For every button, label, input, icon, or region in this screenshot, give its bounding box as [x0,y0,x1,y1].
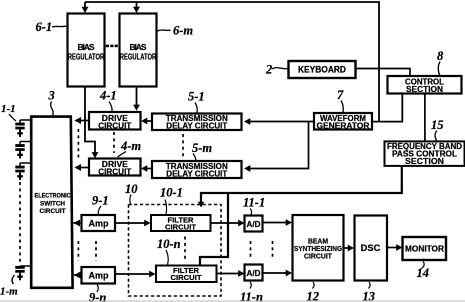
amp 9-n [82,267,116,284]
ellipsis dashes below filter 10-1 [184,237,186,261]
wire waveform generator to delay 5-1 [250,121,315,123]
waveform generator 7 [314,113,372,130]
A/D 11-1 [245,216,263,232]
label 4-1 [99,89,117,112]
label 11-1 [243,196,265,215]
label 1-1 [1,103,16,121]
label 3 [48,89,55,116]
svg-text:GENERATOR: GENERATOR [317,121,370,130]
transmission delay circuit 5-1 [152,114,242,131]
wire amp 9-1 to filter 10-1 [115,222,145,224]
svg-text:CIRCUIT: CIRCUIT [304,252,332,261]
label 15 [431,118,444,141]
label 14 [417,262,430,281]
ellipsis between bias regulators [106,45,118,48]
electronic switch to amp 9-1 wire [74,222,82,224]
electronic switch to amp 9-n wire [74,274,82,276]
svg-text:10-n: 10-n [157,237,181,251]
keyboard 2 [289,61,356,78]
ellipsis dashes between A/D output wires [272,241,274,260]
bias regulator 6-m [120,14,157,87]
wire frequency band branch to filter circuit 10-n [200,193,228,266]
label 10 [125,182,138,204]
transducer element 1-m [15,266,31,280]
svg-text:1-m: 1-m [0,286,18,298]
svg-text:REGULATOR: REGULATOR [120,52,157,62]
label 1-m [0,275,18,298]
svg-text:Amp: Amp [89,271,110,281]
svg-text:3: 3 [48,89,55,103]
amp 9-1 [82,215,116,231]
wire drive 4-1 to switch [81,120,90,122]
wire filter 10-n to A/D 11-n [217,273,239,275]
svg-text:8: 8 [437,49,444,63]
electronic switch circuit 3 [31,117,72,288]
svg-text:CIRCUIT: CIRCUIT [98,121,131,130]
scan artifact streak [0,300,465,302]
DSC 13 [355,216,388,281]
svg-text:KEYBOARD: KEYBOARD [298,65,346,75]
svg-text:CIRCUIT: CIRCUIT [40,208,66,215]
filter circuit 10-n [156,266,217,283]
label 6-1 [36,20,67,34]
beam synthesizing circuit 12 [293,215,344,281]
svg-text:6-1: 6-1 [36,20,53,34]
label 9-n [89,284,106,302]
ellipsis dashes between drive wires [77,129,79,158]
drive circuit 4-m [89,159,141,177]
filter circuit 10-1 [151,215,211,232]
svg-text:ELECTRONIC: ELECTRONIC [35,193,71,200]
svg-text:A/D: A/D [247,268,261,278]
ellipsis dashes between delay circuits [182,134,184,159]
monitor 14 [403,237,447,260]
wire amp 9-n to filter 10-n [115,273,150,275]
label 2 [265,63,288,77]
wire delay 5-1 to drive 4-1 [147,120,153,122]
A/D 11-n [245,265,263,281]
transmission delay circuit 5-m [152,161,242,178]
wire DSC to monitor [387,247,397,249]
svg-text:11-1: 11-1 [243,196,265,210]
drive circuit 4-1 [89,112,141,130]
svg-text:CIRCUIT: CIRCUIT [98,168,131,177]
wire keyboard to control section [356,69,411,76]
wire top control rail [85,2,379,122]
svg-text:REGULATOR: REGULATOR [68,52,105,62]
svg-text:5-1: 5-1 [188,90,205,104]
wire bias 6-m output to drive circuit 4-1 [136,87,138,105]
transducer element 2 [15,142,31,159]
transducer element 3 [15,163,31,180]
svg-text:MONITOR: MONITOR [405,244,444,254]
svg-text:2: 2 [265,63,272,77]
control section 8 [388,76,462,94]
label 5-1 [188,90,205,114]
svg-text:6-m: 6-m [173,24,193,38]
svg-text:13: 13 [363,290,376,302]
svg-text:10: 10 [125,182,138,196]
svg-text:12: 12 [307,290,320,302]
label 5-m [192,141,212,161]
svg-text:BIAS: BIAS [78,42,95,52]
label 4-m [118,139,142,157]
wire A/D 11-1 to beam synthesizer [263,222,287,224]
wire control section to waveform generator [372,94,402,122]
label 10-n [157,237,181,265]
wire filter 10-1 to A/D 11-1 [211,222,239,224]
svg-text:15: 15 [431,118,444,132]
svg-text:DELAY CIRCUIT: DELAY CIRCUIT [166,122,227,131]
svg-text:10-1: 10-1 [160,186,183,200]
svg-text:SECTION: SECTION [406,85,443,94]
wire frequency band section to filter circuits [201,166,402,203]
svg-text:4-m: 4-m [120,139,141,153]
svg-text:5-m: 5-m [192,141,212,155]
ellipsis dashes below amp 9-1 [95,241,97,261]
svg-text:4-1: 4-1 [99,89,117,103]
ellipsis dashed line between elements [19,182,21,262]
transducer element 1-1 [15,120,31,137]
svg-text:SWITCH: SWITCH [40,201,65,208]
svg-text:CIRCUIT: CIRCUIT [165,223,196,232]
label 11-n [240,282,263,302]
svg-text:SECTION: SECTION [405,157,444,166]
wire beam synthesizer to DSC [344,247,349,249]
ellipsis dashes between amp wires [77,241,79,261]
label 13 [363,282,376,302]
label 9-1 [92,194,109,215]
label 10-1 [160,186,183,215]
label 7 [337,88,344,113]
svg-text:DSC: DSC [361,243,381,253]
frequency band pass control section 15 [385,141,465,166]
wire waveform generator branch to delay 5-m [250,122,309,169]
svg-text:9-1: 9-1 [92,194,109,208]
ellipsis dashes between drive circuits [113,132,115,153]
svg-text:1-1: 1-1 [1,103,16,115]
wire bias 6-1 output to drive circuit 4-m [85,87,95,152]
svg-text:BIAS: BIAS [130,42,147,52]
svg-text:DELAY CIRCUIT: DELAY CIRCUIT [166,169,227,178]
wire drive 4-m to switch [81,167,90,169]
wire drop to bias regulator 6-1 [84,2,86,8]
label 12 [307,282,320,302]
wire A/D 11-n to beam synthesizer [263,272,287,274]
svg-text:7: 7 [337,88,344,102]
svg-text:CIRCUIT: CIRCUIT [171,273,202,282]
dashed filter block 10 [129,205,222,297]
svg-text:Amp: Amp [89,219,110,229]
wire delay 5-m to drive 4-m [147,168,153,170]
wire drop to bias regulator 6-m [136,2,138,8]
label 6-m [158,24,194,38]
svg-text:A/D: A/D [247,219,261,229]
wire control section to frequency band section [424,94,426,142]
ellipsis dashes between A/D converters [250,241,252,260]
bias regulator 6-1 [68,14,105,87]
label 8 [437,49,444,76]
